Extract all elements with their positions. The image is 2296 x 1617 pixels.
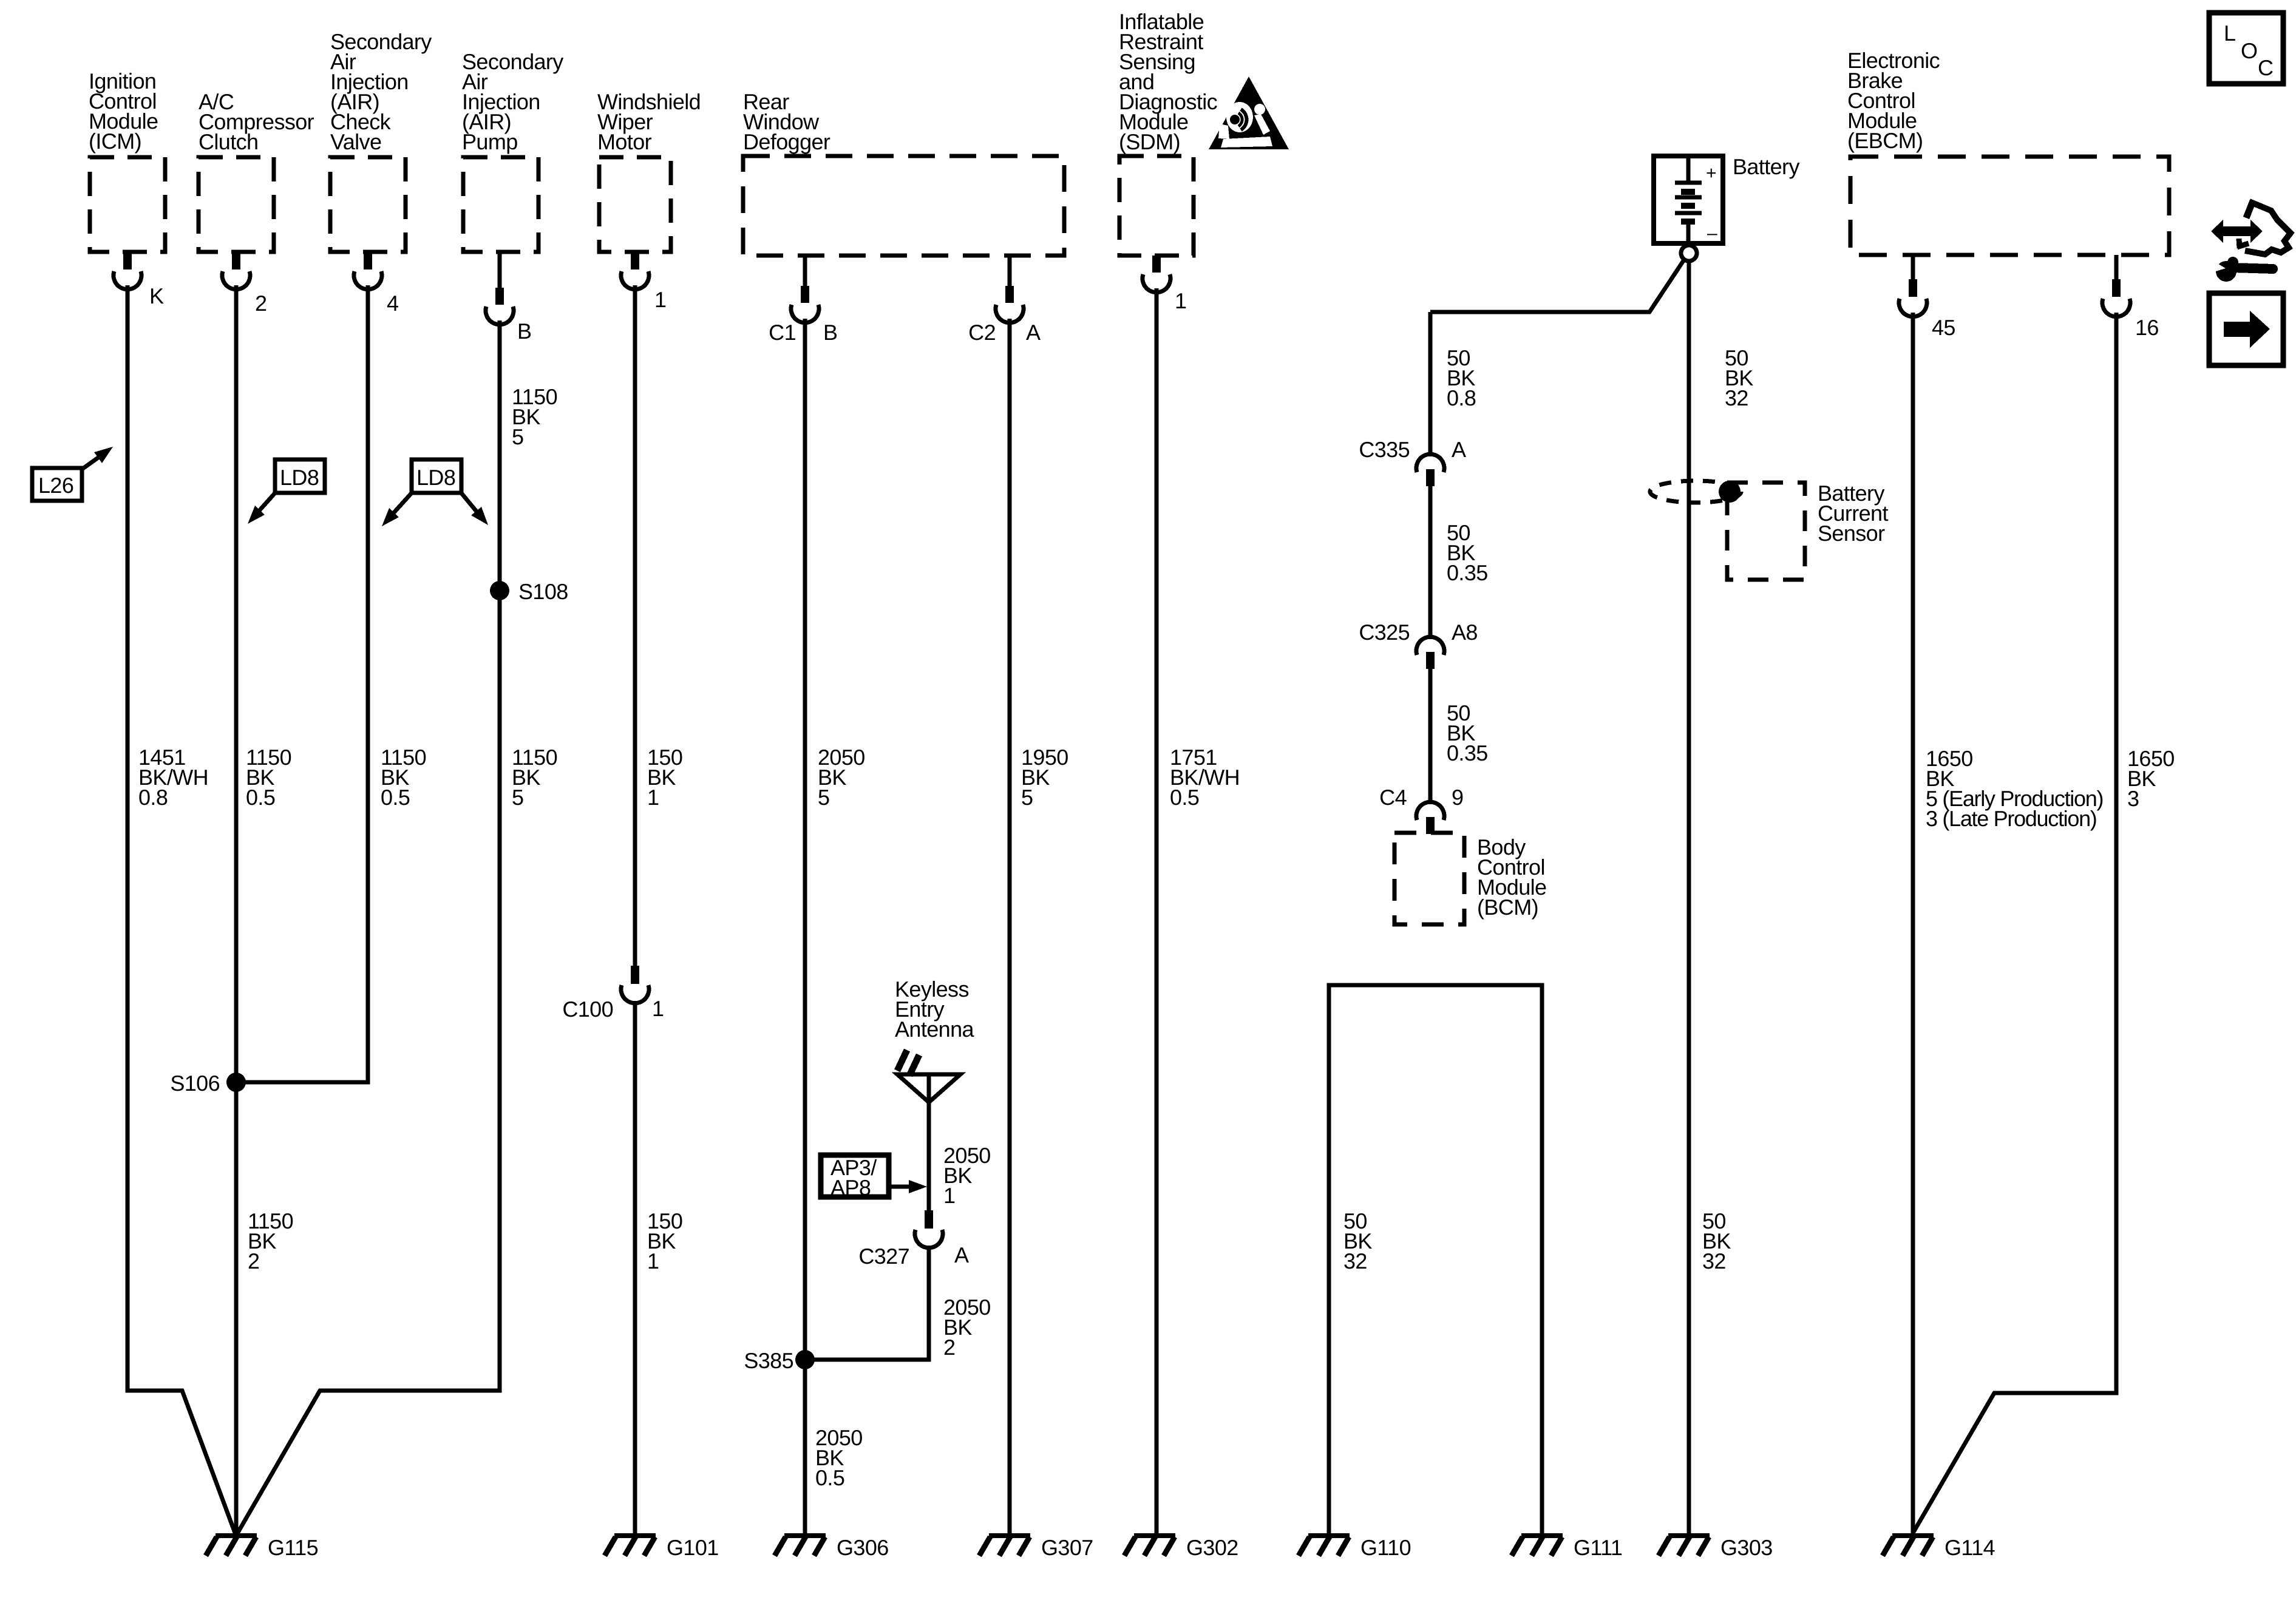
ground G302	[1134, 1533, 1175, 1538]
splice S108	[490, 581, 509, 600]
svg-text:3: 3	[2127, 786, 2139, 811]
battery current sensor dashed ellipse	[1650, 481, 1741, 503]
svg-text:32: 32	[1702, 1249, 1726, 1273]
ground G101	[614, 1533, 656, 1538]
svg-text:G307: G307	[1041, 1535, 1093, 1560]
svg-text:0.8: 0.8	[138, 785, 168, 810]
svg-text:(EBCM): (EBCM)	[1847, 128, 1923, 153]
SDM dashed box	[1119, 156, 1194, 256]
ground G303	[1668, 1533, 1710, 1538]
connector C327 pin A	[858, 1210, 969, 1269]
AP3/AP8 callout box	[821, 1155, 889, 1200]
wire 50 BK 0.35 (C325 to C4)	[1428, 669, 1433, 802]
svg-text:2: 2	[255, 291, 267, 316]
wire battery to junction (diagonal)	[1430, 260, 1684, 312]
svg-text:C2: C2	[968, 320, 996, 345]
svg-text:0.5: 0.5	[246, 785, 275, 810]
wiper connector pin 1	[621, 252, 666, 312]
svg-text:0.5: 0.5	[815, 1465, 844, 1490]
battery negative terminal circle	[1681, 245, 1697, 261]
ground G307	[989, 1533, 1030, 1538]
wire 1650 BK (EBCM 45 to G114)	[1911, 313, 1915, 1534]
svg-text:Sensor: Sensor	[1818, 521, 1885, 546]
ground G306	[784, 1533, 826, 1538]
svg-text:L: L	[2224, 21, 2235, 46]
svg-text:G306: G306	[837, 1535, 889, 1560]
svg-text:G302: G302	[1186, 1535, 1238, 1560]
svg-text:4: 4	[387, 291, 398, 316]
LD8 callout box 2	[412, 459, 461, 493]
svg-text:Antenna: Antenna	[895, 1017, 974, 1042]
AIR pump connector pin B	[486, 252, 531, 344]
battery current sensor junction dot	[1719, 481, 1741, 503]
svg-text:Valve: Valve	[330, 129, 381, 154]
LD8 arrow 2 right	[460, 492, 488, 525]
svg-text:1: 1	[647, 1249, 659, 1273]
svg-text:1: 1	[647, 785, 659, 810]
wire 1150 BK 5 (AIR pump to G115)	[237, 320, 500, 1534]
wire 50 BK 32 loop (G110 to G111)	[1329, 985, 1542, 1534]
rear window defogger dashed box	[743, 156, 1064, 256]
svg-text:AP8: AP8	[830, 1175, 871, 1200]
LD8 callout box 1	[275, 459, 325, 493]
SIR warning triangle	[1209, 76, 1289, 149]
wire 50 BK 0.8 (junction to C335)	[1428, 312, 1433, 455]
wire 1650 BK 3 (EBCM 16 to G114)	[1914, 313, 2116, 1532]
svg-text:0.35: 0.35	[1447, 741, 1488, 765]
svg-text:5: 5	[512, 424, 523, 449]
svg-text:L26: L26	[38, 473, 73, 498]
svg-text:5: 5	[512, 785, 523, 810]
L26 callout box	[32, 468, 82, 501]
svg-text:A8: A8	[1452, 620, 1478, 645]
svg-text:S106: S106	[170, 1071, 220, 1096]
svg-text:C: C	[2258, 55, 2273, 80]
BCM dashed box	[1394, 833, 1464, 924]
svg-text:S385: S385	[744, 1348, 793, 1373]
battery current sensor dashed box	[1727, 483, 1805, 580]
LOC legend box	[2209, 13, 2283, 84]
connector C100 pin 1	[562, 966, 664, 1022]
wiper motor dashed box	[599, 157, 671, 252]
svg-text:S108: S108	[518, 579, 568, 604]
battery symbol	[1654, 156, 1723, 243]
AIR check valve dashed box	[330, 157, 406, 252]
svg-text:LD8: LD8	[280, 465, 319, 490]
svg-text:C4: C4	[1379, 785, 1407, 810]
wire 150 BK 1 (wiper to C100)	[633, 285, 637, 966]
svg-text:G115: G115	[268, 1535, 318, 1560]
check valve connector pin 4	[354, 252, 398, 316]
svg-text:(SDM): (SDM)	[1119, 129, 1180, 154]
svg-text:(ICM): (ICM)	[89, 129, 141, 154]
svg-text:C325: C325	[1359, 620, 1410, 645]
wire 1950 BK 5 (defogger C2 to G307)	[1008, 319, 1012, 1534]
svg-text:Defogger: Defogger	[743, 129, 830, 154]
svg-text:(BCM): (BCM)	[1477, 895, 1538, 920]
wire 1751 BK/WH 0.5 (SDM to G302)	[1155, 288, 1159, 1534]
connector C4 pin 9	[1379, 785, 1463, 834]
defogger connector C1 pin B	[769, 256, 837, 345]
svg-text:0.5: 0.5	[381, 785, 410, 810]
wire 2050 BK 2 (C327 to S385)	[805, 1246, 929, 1360]
svg-text:Battery: Battery	[1733, 154, 1799, 179]
svg-text:16: 16	[2135, 315, 2159, 340]
svg-text:K: K	[149, 283, 164, 308]
svg-text:1: 1	[943, 1183, 955, 1208]
svg-text:G110: G110	[1360, 1535, 1411, 1560]
EBCM connector pin 16	[2102, 255, 2159, 340]
svg-text:A: A	[1026, 320, 1041, 345]
wire 2050 BK 1 (antenna to C327)	[927, 1137, 931, 1210]
ground G110	[1308, 1533, 1350, 1538]
svg-text:C327: C327	[858, 1244, 909, 1269]
svg-text:G114: G114	[1944, 1535, 1995, 1560]
svg-text:C100: C100	[562, 997, 613, 1022]
wire 50 BK 32 (battery to G303)	[1687, 261, 1691, 1534]
svg-text:LD8: LD8	[416, 465, 455, 490]
svg-text:B: B	[517, 319, 531, 344]
svg-text:1: 1	[654, 287, 666, 312]
LD8 arrow 2 left	[382, 492, 413, 526]
svg-text:1: 1	[652, 996, 664, 1021]
svg-text:0.35: 0.35	[1447, 560, 1488, 585]
AP3/AP8 arrow	[889, 1180, 927, 1193]
ICM dashed box	[90, 157, 165, 252]
repair icon (arrow, connector, wrench)	[2206, 201, 2291, 282]
forward arrow box	[2209, 293, 2283, 365]
defogger connector C2 pin A	[968, 256, 1041, 345]
svg-text:32: 32	[1343, 1249, 1367, 1273]
LD8 arrow 1	[248, 492, 276, 524]
svg-text:O: O	[2241, 38, 2257, 63]
svg-text:3 (Late Production): 3 (Late Production)	[1926, 806, 2096, 831]
SDM connector pin 1	[1143, 256, 1186, 313]
svg-text:1: 1	[1175, 288, 1186, 313]
svg-text:A: A	[1452, 437, 1466, 462]
L26 arrow	[82, 447, 113, 469]
svg-text:C1: C1	[769, 320, 796, 345]
svg-text:45: 45	[1932, 315, 1955, 340]
wire 1451 BK/WH 0.8 (ICM to G115)	[127, 285, 236, 1534]
svg-text:G101: G101	[667, 1535, 719, 1560]
svg-text:+: +	[1706, 163, 1717, 183]
splice S385	[795, 1350, 815, 1369]
wire 50 BK 0.35 (C335 to C325)	[1428, 486, 1433, 637]
svg-text:2: 2	[943, 1335, 955, 1360]
ground G114	[1892, 1533, 1934, 1538]
svg-text:A: A	[954, 1242, 969, 1267]
svg-text:0.5: 0.5	[1170, 785, 1199, 810]
svg-text:5: 5	[1021, 785, 1033, 810]
svg-text:–: –	[1707, 223, 1717, 243]
svg-text:B: B	[823, 320, 837, 345]
svg-text:Pump: Pump	[462, 129, 518, 154]
svg-text:C335: C335	[1359, 437, 1410, 462]
AIR pump dashed box	[463, 157, 538, 252]
A/C Compressor Clutch dashed box	[199, 157, 274, 252]
svg-text:Motor: Motor	[597, 129, 652, 154]
ground G111	[1521, 1533, 1563, 1538]
keyless entry antenna symbol	[897, 1050, 960, 1137]
ground G115	[216, 1533, 257, 1538]
ICM connector pin K	[114, 252, 164, 308]
A/C connector pin 2	[222, 252, 267, 316]
connector C335 pin A	[1359, 437, 1466, 486]
connector C325 pin A8	[1359, 620, 1478, 669]
EBCM connector pin 45	[1899, 255, 1955, 340]
EBCM dashed box	[1850, 157, 2169, 255]
svg-text:0.8: 0.8	[1447, 385, 1476, 410]
wire 1150 BK 0.5 (check valve to S106)	[236, 285, 368, 1082]
wire 1150 BK 0.5 (A/C clutch to S106/G115)	[234, 285, 239, 1534]
svg-text:5: 5	[818, 785, 829, 810]
svg-text:G303: G303	[1720, 1535, 1773, 1560]
wire 150 BK 1 (C100 to G101)	[633, 1002, 637, 1534]
svg-text:2: 2	[248, 1249, 259, 1273]
svg-text:32: 32	[1725, 385, 1748, 410]
svg-text:Clutch: Clutch	[199, 129, 258, 154]
splice S106	[226, 1073, 246, 1092]
svg-text:9: 9	[1452, 785, 1463, 810]
svg-text:G111: G111	[1574, 1535, 1622, 1560]
wire 2050 BK 5 (defogger C1 to S385/G306)	[803, 319, 807, 1534]
